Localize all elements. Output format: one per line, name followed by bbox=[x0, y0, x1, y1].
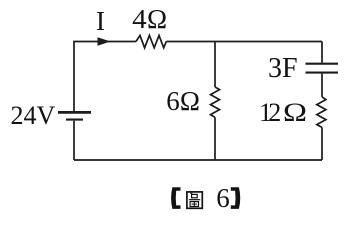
svg-text:4: 4 bbox=[132, 4, 147, 34]
wire: right vertical top bbox=[321, 42, 323, 63]
svg-text:I: I bbox=[96, 6, 105, 36]
wire: right vertical middle bbox=[321, 74, 323, 97]
svg-text:24V: 24V bbox=[11, 101, 56, 130]
capacitor C1 bottom plate bbox=[306, 72, 339, 74]
wire: bottom wire bbox=[74, 159, 322, 161]
resistor R2 6ohm zigzag bbox=[211, 87, 220, 117]
resistor R3 12ohm zigzag bbox=[317, 97, 326, 128]
svg-text:3F: 3F bbox=[268, 53, 298, 84]
svg-text:Ω: Ω bbox=[147, 4, 167, 34]
caption CJK glyph for figure (tu) bbox=[187, 192, 202, 208]
caption right lenticular bracket bbox=[231, 187, 240, 209]
wire: middle vertical top bbox=[214, 42, 216, 88]
svg-text:6: 6 bbox=[216, 183, 230, 213]
svg-text:6: 6 bbox=[166, 86, 180, 116]
wire: right vertical bottom bbox=[321, 127, 323, 160]
wire: top wire right segment bbox=[166, 41, 322, 43]
resistor R1 4ohm zigzag bbox=[136, 35, 166, 47]
svg-text:Ω: Ω bbox=[283, 98, 307, 127]
wire: left vertical top + top wire left segment bbox=[74, 42, 136, 112]
battery V1 long plate bbox=[58, 111, 91, 114]
battery V1 short plate bbox=[66, 119, 83, 121]
capacitor C1 top plate bbox=[306, 63, 339, 65]
wire: left vertical bottom bbox=[73, 121, 75, 160]
caption left lenticular bracket bbox=[171, 187, 180, 209]
current arrow I bbox=[98, 37, 111, 46]
svg-text:Ω: Ω bbox=[180, 86, 200, 116]
wire: middle vertical bottom bbox=[214, 117, 216, 160]
svg-text:2: 2 bbox=[268, 98, 281, 127]
